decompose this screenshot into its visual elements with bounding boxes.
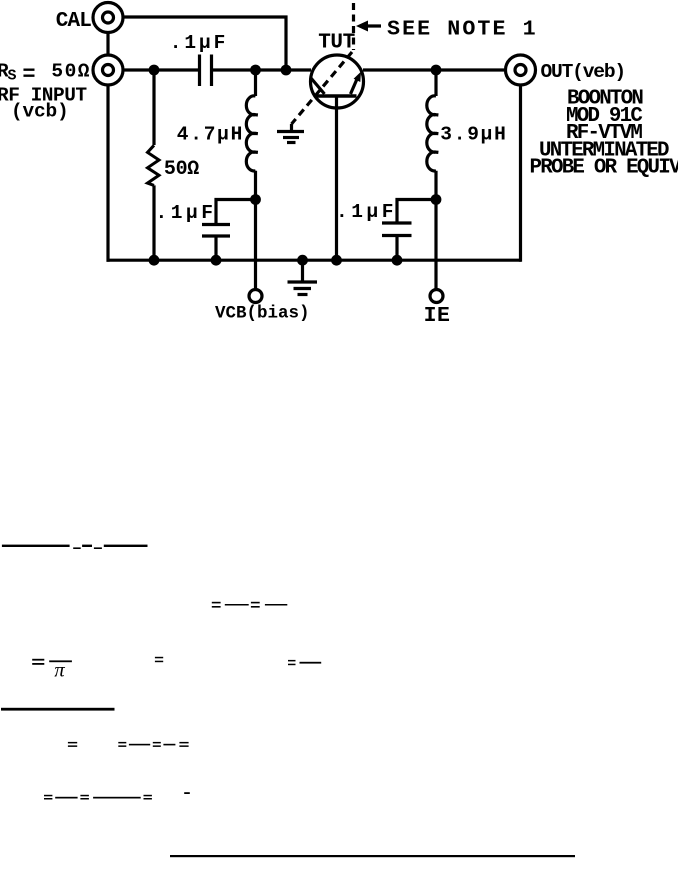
wire C3 bottom lead	[395, 236, 398, 261]
wire top rail right segment	[363, 68, 504, 71]
node dot C (286,69)	[281, 65, 292, 76]
node dot F (436,199.5)	[431, 194, 442, 205]
label BOONTON block	[530, 87, 678, 179]
terminal IE	[430, 290, 443, 303]
svg-text:(vcb): (vcb)	[11, 101, 69, 123]
formula remnant row 6: = bar = longbar = and minus	[44, 792, 190, 799]
node dot H (216,260)	[211, 255, 222, 266]
node dot A (154,69)	[149, 65, 160, 76]
resistor R1 50 ohm zigzag	[148, 145, 160, 185]
arrow SEE NOTE pointer	[356, 21, 381, 32]
node dot B (255,69)	[250, 65, 261, 76]
svg-text:π: π	[54, 660, 65, 682]
wire inductor L2 bottom lead down to IE terminal	[434, 171, 437, 290]
dashed note line diagonal to ground	[292, 52, 353, 124]
capacitor C2 plates	[202, 225, 230, 237]
svg-text:4.7µH: 4.7µH	[177, 123, 244, 145]
svg-text:VCB(bias): VCB(bias)	[215, 304, 310, 324]
wire top rail mid segment	[212, 68, 312, 71]
svg-text:CAL: CAL	[56, 10, 91, 33]
wire inductor L1 top lead	[254, 70, 257, 96]
inductor L2 3.9uH coil	[427, 96, 439, 171]
capacitor C3 .1uF right: top wire	[397, 200, 436, 224]
wire inductor L1 bottom lead down to VCB terminal	[254, 171, 257, 290]
formula remnant row 1: underline with subscript dashes	[2, 545, 148, 549]
svg-text:S: S	[8, 68, 17, 85]
transistor Q1 collector limb with arrow	[351, 72, 362, 94]
node dot E (436,69)	[431, 65, 442, 76]
capacitor C3 plates	[382, 223, 412, 236]
wire transistor base lead down	[335, 96, 338, 260]
transistor Q1 TUT circle	[311, 55, 364, 108]
svg-text:.1µF: .1µF	[336, 201, 397, 223]
connector J3 OUT	[506, 55, 536, 85]
svg-text:PROBE OR EQUIV: PROBE OR EQUIV	[530, 156, 678, 179]
svg-text:SEE NOTE 1: SEE NOTE 1	[387, 17, 538, 42]
node dot D (255,199.5)	[250, 194, 261, 205]
wire left vertical from RF input down	[106, 85, 109, 262]
wire bottom rail	[107, 259, 522, 262]
wire C2 bottom lead	[214, 236, 217, 260]
ground GND2 bottom	[288, 260, 318, 295]
wire CAL top horizontal and down to node	[124, 17, 287, 70]
transistor Q1 emitter limb	[311, 78, 325, 95]
svg-text:50Ω: 50Ω	[164, 158, 199, 181]
svg-text:3.9µH: 3.9µH	[440, 123, 507, 145]
formula remnant row 5: = = bar = dash =	[68, 742, 189, 747]
wire right vertical from OUT down	[519, 85, 522, 262]
label RS = 50ohm	[0, 60, 91, 87]
dashed note line vertical	[352, 3, 355, 50]
terminal VCB(bias)	[249, 290, 262, 303]
node dot G (154,260)	[149, 255, 160, 266]
svg-text:50Ω: 50Ω	[51, 60, 91, 82]
svg-text:.1µF: .1µF	[156, 202, 217, 224]
svg-text:IE: IE	[424, 304, 451, 328]
capacitor C2 .1uF left: top wire	[216, 200, 256, 225]
formula remnant row 3: = bar over pi, =, = bar	[32, 657, 321, 682]
wire resistor top lead	[152, 70, 155, 145]
connector J2 RF INPUT	[93, 55, 123, 85]
node dot I (302.5,260)	[297, 255, 308, 266]
footer rule line	[170, 855, 575, 857]
formula remnant row 2: = bar = bar	[212, 602, 287, 608]
node dot K (397,260)	[392, 255, 403, 266]
inductor L1 4.7uH coil	[246, 96, 258, 171]
connector J1 CAL	[93, 3, 123, 33]
wire resistor bottom lead	[152, 185, 155, 260]
svg-text:.1µF: .1µF	[170, 32, 228, 54]
formula remnant row 4: heading underline	[1, 708, 115, 711]
wire CAL to RF vertical	[106, 34, 109, 54]
svg-text:TUT: TUT	[318, 31, 355, 54]
wire top rail left segment	[124, 68, 199, 71]
capacitor C1 .1uF plates	[200, 55, 212, 87]
node dot J (336.5,260)	[331, 255, 342, 266]
svg-text:OUT(veb): OUT(veb)	[541, 61, 625, 83]
transistor Q1 base bar	[317, 94, 357, 98]
wire inductor L2 top lead	[434, 70, 437, 96]
ground GND1 mid	[277, 124, 304, 143]
